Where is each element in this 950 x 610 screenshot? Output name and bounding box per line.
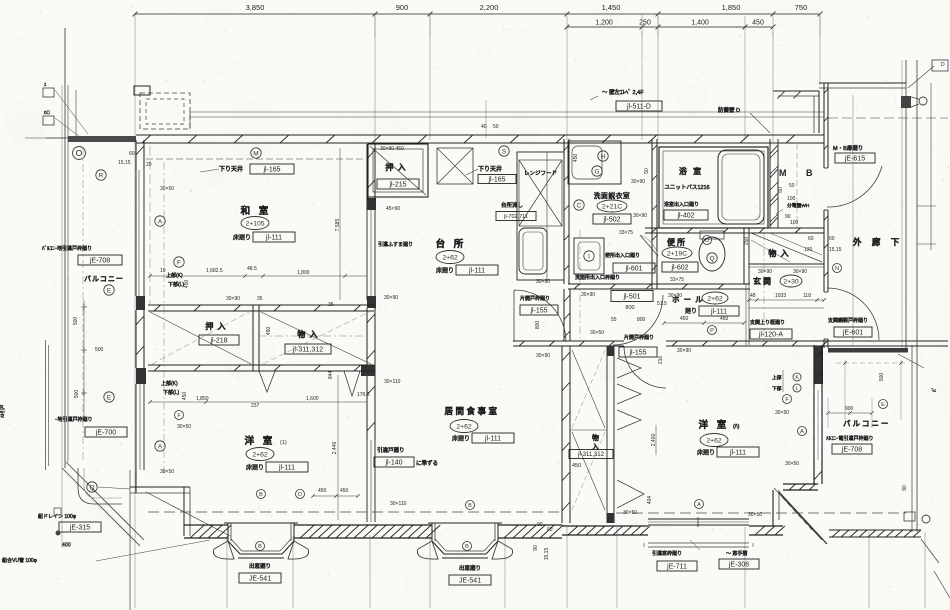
svg-text:片開戸枠廻り: 片開戸枠廻り (520, 295, 550, 302)
svg-text:jl-311,312: jl-311,312 (292, 347, 323, 354)
svg-text:jl-511-D: jl-511-D (626, 104, 651, 111)
svg-text:jl-111: jl-111 (710, 309, 727, 316)
svg-text:30×90: 30×90 (536, 279, 550, 285)
svg-text:900: 900 (845, 406, 854, 412)
svg-text:400: 400 (62, 543, 71, 549)
svg-text:jl-111: jl-111 (729, 450, 746, 457)
svg-text:450: 450 (572, 463, 581, 469)
svg-text:176.5: 176.5 (357, 392, 370, 398)
svg-text:レンジフード: レンジフード (524, 170, 557, 177)
svg-text:500: 500 (879, 373, 885, 382)
svg-text:jE-708: jE-708 (89, 258, 110, 265)
svg-text:引違ふすま廻り: 引違ふすま廻り (378, 241, 413, 248)
svg-text:B: B (806, 168, 813, 178)
svg-text:55: 55 (611, 317, 617, 323)
svg-text:jE-315: jE-315 (69, 525, 90, 532)
svg-text:E: E (107, 394, 112, 401)
svg-text:jl-155: jl-155 (529, 308, 547, 315)
svg-text:浴室出入口廻り: 浴室出入口廻り (664, 201, 699, 208)
svg-text:2,200: 2,200 (480, 3, 499, 12)
svg-text:50: 50 (644, 168, 650, 174)
svg-text:jl-215: jl-215 (388, 182, 406, 189)
svg-text:L: L (796, 386, 799, 392)
svg-text:B: B (258, 544, 262, 550)
svg-text:下部(L): 下部(L) (168, 281, 184, 288)
svg-text:支関上り框廻り: 支関上り框廻り (750, 319, 785, 326)
svg-text:玄関: 玄関 (753, 276, 773, 286)
svg-text:出窓廻り: 出窓廻り (459, 564, 481, 572)
svg-text:jl-111: jl-111 (468, 268, 485, 275)
svg-text:60: 60 (547, 527, 553, 533)
svg-text:A: A (800, 429, 804, 435)
svg-text:G: G (594, 168, 599, 175)
svg-text:浴 室: 浴 室 (679, 166, 703, 176)
svg-text:〜 壁左ｴﾚﾍﾞ 2,4F: 〜 壁左ｴﾚﾍﾞ 2,4F (602, 88, 644, 96)
svg-text:jE-601: jE-601 (842, 330, 863, 337)
svg-text:Q: Q (709, 255, 714, 262)
svg-text:M: M (779, 168, 787, 178)
svg-text:洋 室: 洋 室 (245, 435, 276, 447)
svg-text:500: 500 (95, 347, 104, 353)
svg-text:40: 40 (481, 124, 487, 130)
svg-text:jl-502: jl-502 (602, 217, 620, 224)
svg-text:jl-601: jl-601 (624, 266, 642, 273)
svg-text:C: C (577, 202, 582, 209)
svg-text:60: 60 (129, 151, 135, 157)
svg-text:jl-120-A: jl-120-A (758, 332, 783, 339)
svg-text:洗面説衣室: 洗面説衣室 (594, 191, 630, 200)
svg-text:30×50: 30×50 (785, 461, 799, 467)
svg-text:450: 450 (266, 327, 272, 336)
svg-text:B: B (465, 544, 469, 550)
svg-text:100: 100 (787, 196, 796, 202)
svg-text:90: 90 (537, 522, 543, 528)
svg-text:1,800: 1,800 (297, 270, 310, 276)
svg-text:30×90: 30×90 (384, 295, 398, 301)
svg-text:上部: 上部 (772, 374, 782, 381)
svg-text:床廻り: 床廻り (697, 449, 715, 457)
svg-text:0ﾟ: 0ﾟ (44, 110, 50, 115)
svg-text:30×90 450: 30×90 450 (380, 146, 404, 152)
svg-text:2+62: 2+62 (442, 254, 458, 261)
svg-text:防蕾壁 D: 防蕾壁 D (718, 106, 740, 114)
svg-text:居間食事室: 居間食事室 (444, 406, 499, 416)
svg-text:250: 250 (639, 20, 651, 27)
svg-text:上部(K): 上部(K) (161, 380, 178, 387)
svg-text:60: 60 (808, 236, 814, 242)
svg-text:物 入: 物 入 (768, 248, 789, 258)
svg-text:に準ずる: に準ずる (416, 459, 438, 467)
svg-text:ﾒﾙｺﾆｰ電引違戸枠廻り: ﾒﾙｺﾆｰ電引違戸枠廻り (826, 435, 874, 442)
svg-text:800: 800 (637, 317, 646, 323)
svg-text:30×90: 30×90 (631, 179, 645, 185)
svg-text:床廻り: 床廻り (452, 435, 470, 443)
svg-text:(1): (1) (280, 440, 287, 446)
svg-text:組合VU管 100φ: 組合VU管 100φ (2, 557, 38, 564)
svg-text:台 所: 台 所 (436, 238, 467, 250)
svg-text:450: 450 (318, 488, 327, 494)
svg-text:jl-111: jl-111 (484, 436, 501, 443)
svg-text:50: 50 (493, 124, 499, 130)
svg-text:ﾊﾟ: ﾊﾟ (931, 387, 938, 392)
svg-text:2+62: 2+62 (706, 437, 722, 444)
svg-text:2,446: 2,446 (332, 442, 338, 455)
svg-text:S: S (502, 148, 507, 155)
svg-text:便所: 便所 (667, 237, 687, 247)
svg-text:2+30: 2+30 (783, 278, 799, 285)
svg-text:JE-541: JE-541 (459, 578, 481, 585)
svg-text:引違戸廻り: 引違戸廻り (377, 446, 405, 454)
svg-text:和 室: 和 室 (241, 205, 272, 217)
svg-text:D: D (298, 492, 302, 498)
svg-text:Q: Q (89, 484, 94, 491)
svg-text:床廻り: 床廻り (233, 234, 251, 242)
svg-text:900: 900 (396, 3, 409, 12)
svg-text:A: A (158, 443, 163, 450)
svg-text:30×90: 30×90 (758, 269, 772, 275)
svg-text:20: 20 (146, 162, 152, 168)
svg-text:引違窓枠廻り: 引違窓枠廻り (652, 550, 682, 557)
svg-text:1,600: 1,600 (306, 396, 319, 402)
svg-text:750: 750 (795, 3, 808, 12)
svg-text:30×110: 30×110 (390, 501, 407, 507)
svg-text:2+62: 2+62 (707, 295, 723, 302)
svg-text:450: 450 (752, 20, 764, 27)
svg-text:jE-711: jE-711 (666, 564, 687, 571)
svg-text:出窓廻り: 出窓廻り (249, 562, 271, 570)
svg-text:450: 450 (720, 316, 729, 322)
svg-text:35: 35 (257, 296, 263, 302)
svg-text:15,15: 15,15 (118, 160, 131, 166)
svg-text:237: 237 (251, 403, 260, 409)
svg-text:下部(L): 下部(L) (163, 389, 179, 396)
svg-text:844: 844 (328, 371, 334, 380)
svg-text:60: 60 (778, 187, 784, 193)
svg-text:30×50: 30×50 (160, 469, 174, 475)
svg-text:jl-165: jl-165 (262, 167, 280, 174)
svg-text:jl-111: jl-111 (278, 465, 295, 472)
svg-text:1,850: 1,850 (722, 3, 741, 12)
svg-text:jl-311,312: jl-311,312 (577, 452, 605, 458)
svg-text:物: 物 (592, 433, 599, 442)
svg-text:19: 19 (160, 268, 166, 274)
svg-text:B: B (468, 503, 472, 509)
svg-text:jE-708: jE-708 (841, 447, 862, 454)
svg-text:(ﾊ): (ﾊ) (733, 424, 740, 430)
svg-text:分電盤WH: 分電盤WH (787, 202, 810, 209)
svg-text:500: 500 (73, 317, 79, 326)
svg-text:バルコニー: バルコニー (843, 419, 890, 428)
svg-text:2+21C: 2+21C (602, 203, 622, 210)
svg-text:床廻り: 床廻り (246, 464, 264, 472)
svg-text:jl-602: jl-602 (670, 265, 688, 272)
svg-text:jl-402: jl-402 (676, 213, 694, 220)
svg-text:下り天井: 下り天井 (478, 165, 502, 173)
svg-text:ｰ地引違戸枠廻り: ｰ地引違戸枠廻り (55, 416, 93, 423)
svg-text:120: 120 (804, 247, 813, 253)
svg-text:2+62: 2+62 (456, 423, 472, 430)
svg-text:jl-702,711: jl-702,711 (503, 214, 528, 220)
svg-text:〜 窓手摺: 〜 窓手摺 (726, 550, 747, 557)
svg-text:jE-615: jE-615 (844, 156, 865, 163)
svg-text:100: 100 (790, 220, 799, 226)
svg-text:30×50: 30×50 (775, 410, 789, 416)
svg-text:上部(K): 上部(K) (166, 272, 183, 279)
svg-text:33×75: 33×75 (619, 230, 633, 236)
svg-text:216: 216 (658, 356, 664, 365)
svg-text:jE-306: jE-306 (728, 562, 749, 569)
svg-text:60: 60 (829, 236, 835, 242)
svg-text:250: 250 (744, 237, 750, 246)
svg-text:jl-501: jl-501 (622, 294, 640, 301)
svg-text:バルコニー: バルコニー (84, 275, 124, 283)
svg-text:洗面所出入口枠廻り: 洗面所出入口枠廻り (575, 274, 620, 281)
svg-text:M: M (253, 150, 258, 157)
svg-text:P: P (710, 328, 714, 334)
svg-text:E: E (881, 402, 885, 408)
svg-text:30×50: 30×50 (623, 510, 637, 516)
svg-text:ﾊﾞﾙｺﾆｰ地引違戸枠廻り: ﾊﾞﾙｺﾆｰ地引違戸枠廻り (42, 245, 92, 252)
svg-text:450: 450 (680, 316, 689, 322)
svg-text:jE-700: jE-700 (95, 430, 116, 437)
svg-text:D: D (941, 62, 945, 68)
svg-text:50: 50 (789, 183, 795, 189)
svg-text:800: 800 (625, 305, 634, 311)
svg-text:組ドレイン 100φ: 組ドレイン 100φ (38, 513, 77, 520)
svg-text:2+19C: 2+19C (667, 250, 687, 257)
svg-text:48.5: 48.5 (247, 266, 257, 272)
svg-text:30×90: 30×90 (226, 296, 240, 302)
svg-text:台所流し: 台所流し (501, 201, 523, 209)
svg-text:jl-218: jl-218 (209, 338, 227, 345)
svg-text:2+105: 2+105 (245, 220, 264, 227)
svg-text:450: 450 (340, 488, 349, 494)
svg-text:30×50: 30×50 (160, 186, 174, 192)
svg-text:1,450: 1,450 (602, 3, 621, 12)
svg-text:51.5: 51.5 (657, 301, 667, 307)
svg-text:450: 450 (573, 154, 579, 163)
svg-text:2+62: 2+62 (252, 451, 268, 458)
svg-text:30×90: 30×90 (633, 213, 647, 219)
svg-text:jl-165: jl-165 (487, 177, 505, 184)
svg-text:B: B (259, 492, 263, 498)
svg-text:33×75: 33×75 (670, 277, 684, 283)
svg-text:M・B扉廻り: M・B扉廻り (833, 144, 863, 152)
svg-text:450: 450 (184, 280, 190, 289)
svg-text:30×90: 30×90 (668, 293, 682, 299)
svg-text:物 入: 物 入 (297, 329, 318, 339)
svg-text:jl-111: jl-111 (265, 235, 282, 242)
svg-text:30×90: 30×90 (536, 353, 550, 359)
svg-text:800: 800 (535, 321, 541, 330)
svg-text:A: A (697, 502, 701, 508)
svg-text:支関鋼製戸枠廻り: 支関鋼製戸枠廻り (828, 317, 868, 324)
svg-text:洋 室: 洋 室 (699, 419, 730, 431)
svg-text:床廻り: 床廻り (436, 267, 454, 275)
svg-text:3,850: 3,850 (246, 3, 265, 12)
svg-text:30×90: 30×90 (677, 348, 691, 354)
svg-text:30×110: 30×110 (384, 379, 401, 385)
svg-text:500: 500 (74, 390, 80, 399)
svg-text:30×90: 30×90 (581, 292, 595, 298)
svg-text:下り天井: 下り天井 (219, 165, 243, 173)
svg-text:N: N (835, 266, 839, 272)
svg-text:押 入: 押 入 (205, 321, 226, 331)
svg-text:押 入: 押 入 (385, 162, 406, 172)
svg-text:30×90: 30×90 (793, 269, 807, 275)
svg-text:404: 404 (647, 496, 653, 505)
svg-text:jl-155: jl-155 (628, 350, 646, 357)
svg-text:45×90: 45×90 (386, 206, 400, 212)
svg-text:15,15: 15,15 (829, 247, 842, 253)
svg-text:30×50: 30×50 (748, 512, 762, 518)
svg-text:35: 35 (328, 302, 334, 308)
svg-text:90: 90 (533, 545, 539, 551)
svg-text:450: 450 (182, 392, 188, 401)
svg-text:A: A (158, 218, 163, 225)
svg-text:H: H (601, 153, 606, 160)
svg-text:118: 118 (803, 293, 811, 299)
svg-text:使所出入口廻り: 使所出入口廻り (605, 252, 640, 259)
svg-text:jl-140: jl-140 (384, 460, 402, 467)
svg-text:1,682.5: 1,682.5 (206, 268, 223, 274)
svg-text:30×50: 30×50 (590, 330, 604, 336)
svg-text:1033: 1033 (775, 293, 786, 299)
svg-text:片開戸枠廻り: 片開戸枠廻り (624, 334, 654, 341)
svg-text:I: I (588, 253, 590, 260)
svg-text:F: F (177, 259, 181, 266)
svg-text:48: 48 (750, 293, 756, 299)
svg-text:30×50: 30×50 (177, 424, 191, 430)
svg-text:E: E (107, 287, 112, 294)
svg-text:90: 90 (902, 485, 908, 491)
svg-text:15,15: 15,15 (544, 548, 550, 561)
svg-text:D: D (705, 238, 709, 244)
svg-text:1,200: 1,200 (595, 20, 613, 27)
svg-text:R: R (99, 172, 104, 179)
svg-text:廻り: 廻り (685, 307, 697, 315)
svg-text:下部: 下部 (772, 385, 782, 392)
svg-text:1,400: 1,400 (691, 20, 709, 27)
svg-text:外 廊 下: 外 廊 下 (853, 237, 903, 247)
svg-text:ユニットバス1216: ユニットバス1216 (664, 184, 709, 191)
svg-text:JE-541: JE-541 (249, 576, 271, 583)
